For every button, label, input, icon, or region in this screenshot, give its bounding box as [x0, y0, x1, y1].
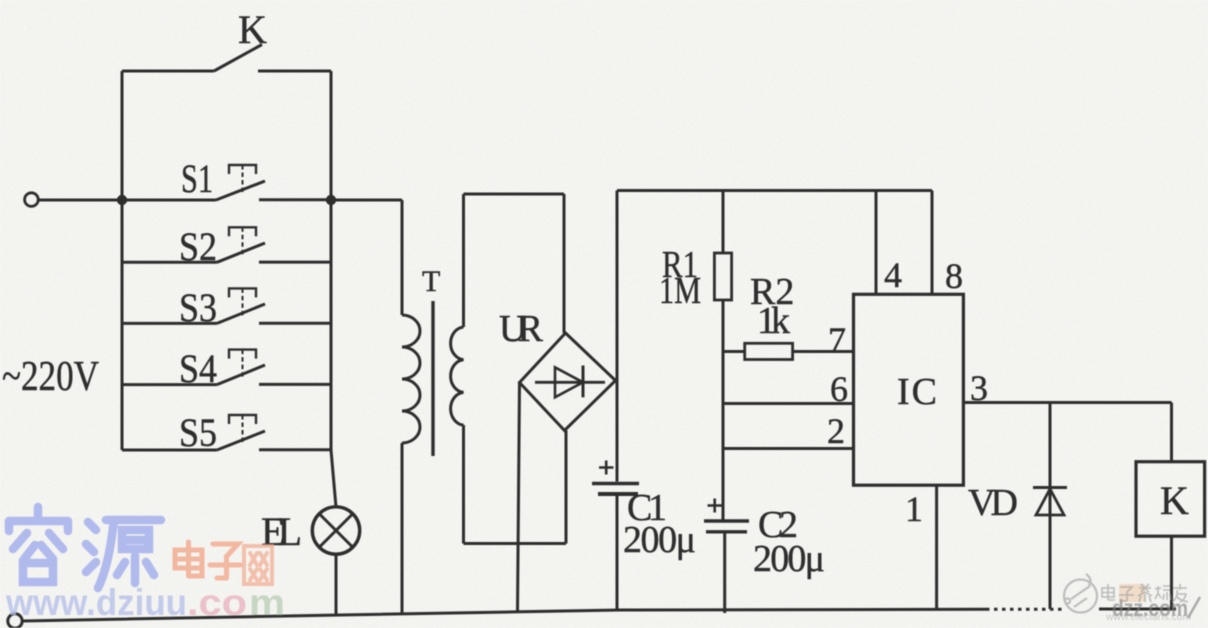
- relay K box: [1136, 403, 1205, 610]
- svg-text:S4: S4: [179, 346, 217, 391]
- watermark dianziwang char 1: [175, 542, 202, 576]
- bridge inner diode: [535, 366, 605, 398]
- svg-text:200μ: 200μ: [753, 538, 825, 580]
- svg-text:1k: 1k: [757, 300, 790, 342]
- wire pin 2: [723, 447, 854, 450]
- node junction left: [117, 195, 127, 205]
- watermark slash: [1188, 597, 1200, 618]
- wire K rail: [122, 70, 331, 73]
- diode VD: [1033, 403, 1067, 610]
- svg-text:UR: UR: [499, 308, 544, 350]
- svg-text:www.dziuu: www.dziuu: [5, 582, 187, 623]
- watermark elecfans char 3: [1138, 584, 1152, 602]
- watermark rongyuan char 2: [86, 520, 161, 588]
- switch K: [214, 45, 262, 72]
- wire left bus vertical: [121, 71, 124, 450]
- svg-text:IC: IC: [897, 371, 937, 413]
- wire S1 to transformer: [331, 199, 402, 202]
- watermark dianziwang char 2: [210, 544, 240, 578]
- svg-text:m: m: [249, 582, 285, 623]
- watermark elecfans logo swirl: [1064, 574, 1097, 613]
- switch S4: [122, 350, 331, 385]
- watermark orange tint: [1119, 584, 1145, 602]
- transformer T core: [431, 301, 434, 456]
- svg-text:2: 2: [827, 411, 845, 451]
- svg-text:K: K: [238, 7, 267, 52]
- switch S1: [122, 165, 331, 200]
- watermark elecfans char 4: [1155, 586, 1171, 600]
- capacitor C2: [704, 499, 749, 614]
- svg-text:T: T: [422, 265, 440, 298]
- transformer T secondary winding: [451, 194, 464, 544]
- node junction right: [326, 195, 336, 205]
- transformer T primary winding: [402, 200, 420, 614]
- wire bridge left to ground: [518, 383, 520, 612]
- svg-text:www.elecfans.com: www.elecfans.com: [1105, 611, 1191, 623]
- switch S2: [122, 227, 331, 262]
- svg-text:1M: 1M: [659, 270, 701, 312]
- svg-text:7: 7: [828, 320, 846, 360]
- resistor R1: [714, 191, 731, 521]
- ground rail bottom: [23, 609, 987, 621]
- lamp EL: [312, 507, 359, 554]
- svg-text:1: 1: [905, 489, 923, 529]
- watermark elecfans char 1: [1102, 584, 1115, 600]
- wire pin 4: [875, 191, 878, 295]
- op-amp IC box: [854, 294, 964, 485]
- svg-text:6: 6: [830, 369, 848, 409]
- svg-text:200μ: 200μ: [623, 519, 696, 561]
- watermark elecfans char 2: [1119, 587, 1134, 601]
- resistor R2: [723, 343, 854, 359]
- svg-text:~220V: ~220V: [2, 354, 99, 400]
- svg-text:K: K: [1160, 478, 1189, 523]
- svg-text:4: 4: [884, 255, 902, 295]
- wire secondary bottom to bridge: [464, 431, 567, 544]
- svg-text:8: 8: [945, 256, 963, 296]
- wire pin 3: [963, 401, 1171, 404]
- wire DC top rail: [617, 189, 932, 192]
- svg-text:3: 3: [970, 368, 988, 408]
- watermark rongyuan char 1: [9, 507, 68, 582]
- capacitor C1: [592, 461, 639, 495]
- watermark dianziwang char 3: [244, 546, 272, 584]
- svg-text:S2: S2: [179, 224, 217, 269]
- wire pin 6: [723, 402, 854, 405]
- switch S3: [122, 288, 331, 323]
- bridge rectifier UR diamond: [520, 333, 616, 431]
- wire pin 8: [931, 191, 934, 295]
- input terminal bottom: [8, 614, 22, 628]
- svg-text:S1: S1: [181, 156, 213, 201]
- watermark elecfans char 5: [1172, 584, 1188, 602]
- switch S5: [122, 415, 331, 450]
- wire pin 1: [935, 485, 938, 609]
- svg-text:VD: VD: [968, 482, 1018, 524]
- svg-text:S3: S3: [179, 285, 217, 330]
- wire secondary top to bridge: [464, 194, 565, 333]
- svg-text:S5: S5: [179, 410, 217, 455]
- wire right bus vertical: [331, 71, 336, 616]
- input terminal top: [25, 193, 122, 207]
- svg-text:.co: .co: [187, 582, 247, 623]
- wire DC positive vertical with C1: [616, 191, 619, 611]
